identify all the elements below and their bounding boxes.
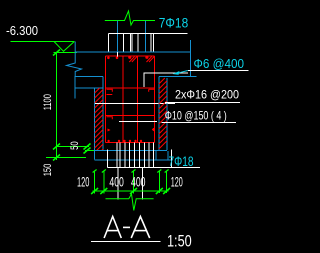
svg-text:Φ6 @400: Φ6 @400 <box>194 56 245 71</box>
footing outline white <box>107 150 200 168</box>
wall right upper vertical <box>190 40 192 76</box>
rebar dots bottom <box>107 140 142 142</box>
level marker triangle <box>54 42 74 52</box>
bottom break line <box>106 194 154 210</box>
svg-text:2xΦ16 @200: 2xΦ16 @200 <box>175 88 239 102</box>
dim ticks left chain <box>53 50 91 161</box>
svg-text:-6.300: -6.300 <box>6 23 38 38</box>
stirrup hooks <box>107 89 155 119</box>
dim extension 150 bottom <box>46 157 86 159</box>
slab top right blue <box>159 76 197 78</box>
level line <box>11 41 75 43</box>
svg-text:50: 50 <box>69 141 81 150</box>
left wall hatch borders <box>94 88 96 160</box>
extension top ticks <box>93 170 169 173</box>
bottom dim extension lines <box>95 171 167 194</box>
footing top blue <box>95 150 167 152</box>
pier sides right <box>155 151 157 160</box>
mid markers <box>108 129 111 132</box>
construction joint line <box>75 51 190 53</box>
leader arrow phi6 <box>177 71 188 74</box>
svg-text:1100: 1100 <box>42 94 54 110</box>
svg-text:Φ10 @150 ( 4 ): Φ10 @150 ( 4 ) <box>165 109 227 123</box>
mid white line <box>119 121 157 123</box>
dimension line vertical 1100 chain <box>56 53 58 161</box>
title underline <box>91 241 161 243</box>
piles <box>117 167 119 200</box>
right wall hatch <box>159 78 167 149</box>
top break line <box>105 11 155 25</box>
right wall hatch borders <box>158 77 160 151</box>
underline 2xphi16 <box>165 102 240 104</box>
svg-text:150: 150 <box>42 164 54 177</box>
footing mid blue <box>95 159 172 161</box>
bottom dimension line <box>93 190 169 192</box>
column stirrups <box>106 56 155 143</box>
svg-text:1:50: 1:50 <box>167 232 192 251</box>
hook slashes top <box>129 56 155 62</box>
section title A-A <box>104 217 150 239</box>
svg-text:400: 400 <box>131 173 146 189</box>
dim extension 50 bottom <box>85 150 102 152</box>
bar top underline <box>108 33 187 35</box>
svg-text:7Φ18: 7Φ18 <box>169 154 194 169</box>
underline phi10 <box>162 122 237 124</box>
beam top right white <box>144 73 188 87</box>
kicker wall lines above column <box>117 21 119 53</box>
step rectangle left <box>75 77 103 99</box>
left wall hatch <box>95 88 104 151</box>
svg-text:7Φ18: 7Φ18 <box>159 16 188 31</box>
ground line white <box>95 103 175 105</box>
column dowel bars top <box>108 34 153 53</box>
underline phi6 <box>188 70 249 72</box>
bottom dim ticks <box>91 188 170 194</box>
wall outline left with break <box>67 42 82 77</box>
rebar dots top <box>117 52 119 58</box>
svg-text:120: 120 <box>171 173 183 189</box>
footing dowels <box>117 143 153 168</box>
svg-text:400: 400 <box>109 173 124 189</box>
column cage verticals <box>106 56 155 143</box>
svg-text:120: 120 <box>77 173 90 189</box>
dim extension 50 top <box>57 146 90 148</box>
dim extension top <box>54 52 78 54</box>
